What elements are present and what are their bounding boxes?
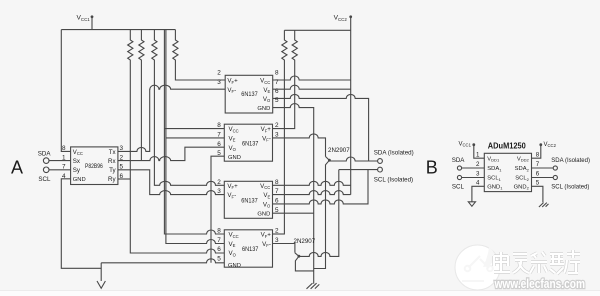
- svg-text:VDD2: VDD2: [517, 156, 530, 162]
- svg-text:SDA (Isolated): SDA (Isolated): [551, 158, 590, 164]
- wire VCC1 stem: [91, 17, 93, 30]
- wire Rx to 6N137-2 pin6: [118, 147, 224, 160]
- node SDA isolated-B circle: [553, 166, 557, 170]
- svg-text:VCC: VCC: [73, 150, 83, 156]
- svg-text:Rx: Rx: [108, 158, 116, 165]
- wire VCC1 rail: [61, 29, 175, 31]
- svg-text:6: 6: [217, 246, 221, 253]
- svg-text:Sx: Sx: [73, 158, 81, 165]
- svg-text:A: A: [11, 158, 23, 178]
- wire 6N137-1 pin5 to GND2 stem: [273, 104, 314, 284]
- svg-text:GND: GND: [257, 212, 270, 218]
- svg-text:P82B96: P82B96: [85, 163, 103, 170]
- wire Tx to 6N137-1 pin3: [118, 85, 225, 151]
- wire VCC2 vertical: [350, 17, 352, 195]
- watermark chinese characters (approximated strokes): [494, 250, 580, 274]
- wire VCC1 to 6N137-2 pin7 and 6N137-4 pin7: [166, 30, 224, 244]
- svg-text:SDA1: SDA1: [487, 166, 502, 172]
- wire SDA-B to pin2: [462, 167, 485, 169]
- optocoupler U5 6N137 #4 box: [224, 230, 272, 267]
- svg-text:Ty: Ty: [109, 167, 116, 174]
- svg-text:6: 6: [275, 198, 279, 205]
- svg-text:VDD1: VDD1: [487, 156, 500, 162]
- node SDA-B circle: [457, 166, 461, 170]
- svg-text:6N137: 6N137: [242, 140, 259, 147]
- svg-text:8: 8: [275, 179, 279, 186]
- svg-text:2N2907: 2N2907: [328, 147, 350, 154]
- svg-text:SDA2: SDA2: [515, 166, 530, 172]
- wire 6N137-1 pin8 to VCC2: [273, 76, 351, 80]
- svg-text:GND: GND: [228, 155, 241, 161]
- wire ADuM pin4 GND1: [472, 186, 484, 202]
- node SCL isolated circle: [378, 167, 383, 172]
- svg-text:7: 7: [275, 79, 279, 86]
- svg-text:3: 3: [275, 237, 279, 244]
- svg-text:B: B: [426, 157, 438, 177]
- wire 6N137-4 pin3 to Q2 collector: [273, 244, 295, 253]
- wire 6N137-3 pin8 to VCC2: [273, 181, 351, 185]
- svg-text:7: 7: [217, 237, 221, 244]
- svg-text:5: 5: [120, 164, 124, 171]
- svg-text:4: 4: [476, 180, 480, 187]
- svg-text:1: 1: [476, 151, 480, 158]
- svg-text:2: 2: [476, 161, 480, 168]
- wire VCC1 to P82B96 pin 8: [61, 30, 70, 152]
- svg-text:GND2: GND2: [514, 184, 530, 190]
- svg-text:2: 2: [120, 154, 124, 161]
- wire Ty to 6N137-3 pin3: [118, 170, 224, 195]
- svg-text:6: 6: [275, 88, 279, 95]
- svg-text:5: 5: [275, 97, 279, 104]
- watermark logo: [455, 245, 585, 291]
- node VCC1-B dot: [472, 143, 475, 146]
- svg-text:2: 2: [275, 122, 279, 129]
- node VCC2-B dot: [539, 143, 542, 146]
- svg-text:GND: GND: [228, 263, 241, 269]
- resistor R6: [273, 30, 298, 128]
- transistor Q2 2N2907: [295, 253, 298, 256]
- IC U1 P82B96 bus buffer box: [71, 147, 118, 185]
- svg-text:SCL (Isolated): SCL (Isolated): [374, 177, 413, 184]
- wire ADuM pin5 GND2: [532, 186, 543, 202]
- svg-text:GND1: GND1: [487, 184, 503, 190]
- wire 6N137-2 pin8 branch: [164, 128, 224, 130]
- svg-text:SCL1: SCL1: [487, 176, 501, 182]
- svg-text:SCL2: SCL2: [515, 176, 529, 182]
- wire Ry to R1: [118, 178, 130, 180]
- optocoupler U2 6N137 #1 box: [225, 75, 273, 113]
- wire 6N137-2 pin7 branch: [166, 137, 224, 139]
- svg-text:VCC2: VCC2: [544, 142, 557, 148]
- svg-text:6N137: 6N137: [242, 246, 259, 253]
- node SCL-B circle: [457, 175, 461, 179]
- wire SCL-B to pin3: [462, 177, 485, 179]
- resistor R3: [152, 30, 225, 186]
- wire 6N137-1 pin7 to VCC2: [273, 85, 351, 89]
- resistor R4: [173, 30, 225, 80]
- svg-text:2: 2: [217, 179, 221, 186]
- wire 6N137-2 pin5 GND descender: [211, 156, 224, 263]
- wire VCC1 to 6N137-2 pin8 and 6N137-4 pin8: [164, 30, 224, 234]
- wire 6N137-3 pin7 to VCC2: [273, 191, 351, 195]
- resistor R2: [139, 30, 144, 161]
- wire 6N137-3 pin6 to SCL isolated row: [273, 170, 369, 204]
- svg-text:3: 3: [120, 145, 124, 152]
- node VCC2 terminal dot: [349, 15, 352, 18]
- svg-text:SDA: SDA: [38, 150, 52, 157]
- wire GND1 rail to 6N137-4 pin5: [101, 259, 224, 263]
- svg-text:8: 8: [217, 122, 221, 129]
- svg-text:8: 8: [217, 228, 221, 235]
- svg-text:ADuM1250: ADuM1250: [488, 142, 527, 151]
- IC U6 ADuM1250 isolator box: [484, 153, 531, 191]
- svg-text:Ry: Ry: [108, 176, 116, 183]
- wire SDA to Sx: [49, 160, 71, 162]
- svg-text:Sy: Sy: [73, 167, 81, 174]
- svg-text:5: 5: [217, 256, 221, 263]
- svg-text:2N2907: 2N2907: [294, 238, 316, 245]
- node SDA terminal circle: [43, 158, 49, 164]
- wire pin7 to SDA isolated-B: [532, 167, 554, 169]
- node SCL isolated-B circle: [553, 175, 557, 179]
- wire P82B96 GND down and to GND rail: [61, 179, 101, 268]
- svg-text:8: 8: [275, 70, 279, 77]
- svg-text:www.elecfans.com: www.elecfans.com: [494, 277, 585, 291]
- svg-text:SDA: SDA: [452, 157, 466, 164]
- node SDA isolated circle: [378, 159, 383, 164]
- svg-text:GND: GND: [73, 177, 86, 183]
- wire 6N137-4 pin2 to R5: [273, 233, 285, 235]
- svg-text:4: 4: [62, 173, 66, 180]
- svg-text:3: 3: [217, 79, 221, 86]
- svg-text:8: 8: [62, 145, 66, 152]
- svg-text:VCC1: VCC1: [459, 141, 472, 147]
- optocoupler U3 6N137 #2 box: [224, 124, 272, 161]
- svg-text:6N137: 6N137: [241, 91, 258, 98]
- svg-text:7: 7: [217, 132, 221, 139]
- ground GND2-B hatch: [539, 203, 549, 207]
- wire VCC2 rail: [284, 29, 350, 31]
- svg-text:5: 5: [217, 150, 221, 157]
- wire 6N137-2 pin3 to Q1 collector: [273, 134, 326, 157]
- wire SCL isolated row: [339, 169, 378, 171]
- wire 6N137-1 pin6 to SDA isolated row: [273, 94, 369, 161]
- svg-text:3: 3: [217, 188, 221, 195]
- ground GND2 hatch: [307, 283, 320, 289]
- wire 6N137-3 pin5 to GND2 stem: [273, 212, 314, 214]
- resistor R5: [273, 30, 288, 234]
- svg-text:GND: GND: [257, 106, 270, 112]
- svg-text:3: 3: [275, 132, 279, 139]
- svg-text:5: 5: [536, 180, 540, 187]
- ground GND1-B arrow: [468, 202, 475, 207]
- svg-text:2: 2: [217, 70, 221, 77]
- node SCL terminal circle: [43, 167, 49, 173]
- svg-text:7: 7: [62, 164, 66, 171]
- node VCC1 terminal dot: [91, 15, 94, 18]
- svg-text:SDA (Isolated): SDA (Isolated): [374, 150, 414, 157]
- optocoupler U4 6N137 #3 box: [224, 181, 272, 218]
- svg-text:SCL: SCL: [38, 176, 51, 183]
- svg-text:2: 2: [275, 228, 279, 235]
- svg-text:6: 6: [536, 171, 540, 178]
- svg-text:SCL: SCL: [452, 183, 465, 190]
- svg-text:6N137: 6N137: [241, 197, 258, 204]
- transistor Q1 2N2907: [326, 157, 329, 160]
- wire pin6 to SCL isolated-B: [532, 177, 554, 179]
- svg-text:5: 5: [275, 207, 279, 214]
- bottom strip: [0, 291, 600, 296]
- svg-text:1: 1: [62, 154, 66, 161]
- svg-text:SCL (Isolated): SCL (Isolated): [551, 184, 589, 190]
- wire SCL to Sy: [49, 169, 71, 171]
- ground GND1 arrow: [100, 263, 102, 281]
- wire ADuM pin8 to VCC2-B: [532, 145, 541, 159]
- wire Q1 base to SDA isolated: [329, 157, 377, 161]
- svg-text:6: 6: [120, 173, 124, 180]
- svg-text:6: 6: [217, 141, 221, 148]
- svg-text:7: 7: [275, 188, 279, 195]
- svg-text:3: 3: [476, 171, 480, 178]
- svg-text:Tx: Tx: [109, 149, 117, 156]
- wire ADuM pin1 to VCC1-B: [474, 145, 485, 159]
- wire Q2 base riser to SCL isolated: [299, 170, 339, 257]
- svg-text:8: 8: [536, 151, 540, 158]
- svg-text:7: 7: [536, 161, 540, 168]
- resistor R1: [128, 30, 225, 253]
